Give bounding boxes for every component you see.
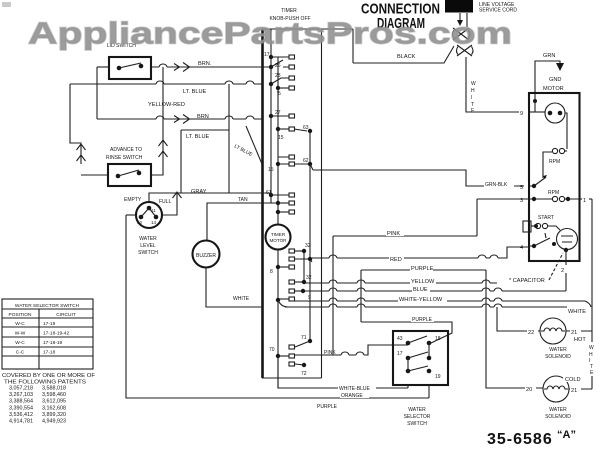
timer motor M	[266, 225, 291, 250]
svg-text:15: 15	[278, 135, 284, 141]
service cord label	[479, 2, 517, 14]
wire GRN-BLK from timer 62 to motor 5	[313, 170, 524, 186]
svg-text:ORANGE: ORANGE	[341, 393, 363, 399]
svg-text:3,598,460: 3,598,460	[42, 392, 66, 398]
wire ORANGE	[126, 215, 429, 398]
svg-text:WHITE: WHITE	[568, 309, 586, 315]
wire purple riser	[360, 270, 362, 322]
wire buzzer to white	[206, 268, 262, 308]
wire LT BLUE 2	[181, 130, 229, 193]
svg-text:W-C: W-C	[15, 321, 25, 327]
svg-text:TIMER: TIMER	[281, 8, 297, 14]
label YELLOW	[410, 277, 436, 285]
wire LT BLUE diagonal	[246, 126, 262, 164]
motor main winding circle	[529, 93, 567, 149]
capacitor wire to terminal 2	[565, 250, 567, 291]
timer bus A	[270, 29, 272, 203]
svg-text:W: W	[589, 345, 594, 351]
svg-text:WHITE-YELLOW: WHITE-YELLOW	[399, 297, 443, 303]
svg-text:70: 70	[269, 347, 275, 353]
connector chevrons BRN1	[174, 63, 190, 72]
label CAPACITOR with leader	[509, 253, 563, 284]
wire BLUE	[303, 290, 566, 292]
svg-text:WATER: WATER	[549, 407, 567, 413]
wire WHITE-BLUE	[278, 356, 408, 388]
svg-text:72: 72	[301, 371, 307, 377]
svg-text:MOTOR: MOTOR	[543, 86, 564, 92]
buzzer B1	[193, 241, 220, 268]
svg-text:SELECTOR: SELECTOR	[404, 414, 431, 420]
svg-text:LT BLUE: LT BLUE	[233, 143, 254, 158]
label PURPLE top	[410, 264, 434, 272]
svg-text:3,057,218: 3,057,218	[9, 386, 33, 392]
water level switch S4	[136, 202, 162, 228]
svg-text:LT. BLUE: LT. BLUE	[183, 89, 206, 95]
svg-text:SWITCH: SWITCH	[407, 421, 427, 427]
svg-text:17: 17	[397, 351, 403, 357]
svg-text:43: 43	[397, 336, 403, 342]
svg-text:LT. BLUE: LT. BLUE	[186, 134, 209, 140]
plug connector P1	[453, 13, 474, 56]
svg-text:17-19: 17-19	[43, 321, 56, 327]
svg-text:GRN: GRN	[543, 53, 555, 59]
svg-text:PINK: PINK	[387, 231, 400, 237]
part number 35-6586 A	[487, 429, 576, 448]
svg-text:17: 17	[264, 52, 270, 58]
svg-text:3,267,103: 3,267,103	[9, 392, 33, 398]
svg-text:SWITCH: SWITCH	[138, 250, 158, 256]
svg-text:62: 62	[303, 158, 309, 164]
svg-text:21: 21	[571, 388, 577, 394]
svg-text:RED: RED	[390, 257, 402, 263]
wire WHITE-YELLOW	[290, 301, 591, 307]
svg-text:12: 12	[137, 220, 143, 225]
svg-text:1: 1	[583, 198, 586, 204]
svg-text:17-18: 17-18	[43, 350, 56, 356]
svg-text:BRN: BRN	[197, 114, 209, 120]
selector node 19	[406, 358, 441, 380]
chevrons rinse riser	[159, 140, 168, 157]
title	[361, 1, 440, 33]
timer contact 28	[269, 73, 295, 86]
svg-text:GND: GND	[549, 77, 561, 83]
terminal 1 label	[580, 195, 592, 204]
label 21 cold	[570, 385, 581, 394]
label 22	[527, 327, 538, 336]
svg-text:4,949,923: 4,949,923	[42, 419, 66, 425]
label ORANGE	[340, 391, 369, 399]
svg-text:ADVANCE TO: ADVANCE TO	[110, 147, 142, 153]
label BLUE	[412, 285, 430, 293]
svg-text:3,390,554: 3,390,554	[9, 405, 33, 411]
wire hot solenoid 22 feed	[497, 307, 540, 331]
wire GRAY	[149, 193, 271, 203]
advance to rinse switch S2	[106, 147, 151, 186]
selector node 43	[397, 336, 427, 345]
svg-text:28: 28	[275, 73, 281, 79]
svg-text:26: 26	[275, 63, 281, 69]
svg-text:15: 15	[268, 167, 274, 173]
timer contact 9	[289, 289, 311, 301]
label TIMER KNOB-PUSH OFF	[269, 8, 310, 22]
wire LT BLUE 1	[70, 83, 262, 85]
svg-text:RPM: RPM	[548, 190, 559, 196]
svg-text:LEVEL: LEVEL	[140, 243, 156, 249]
label WATER SOLENOID hot	[545, 347, 571, 360]
wire YELLOW	[304, 282, 497, 284]
svg-text:RPM: RPM	[549, 159, 560, 165]
label WHITE-BLUE	[338, 384, 376, 392]
svg-text:2: 2	[561, 268, 564, 274]
wire lid switch right BRN	[151, 66, 262, 68]
svg-text:CIRCUIT: CIRCUIT	[56, 312, 76, 318]
svg-text:YELLOW: YELLOW	[411, 279, 435, 285]
svg-text:8: 8	[270, 269, 273, 275]
svg-text:START: START	[538, 215, 554, 221]
timer tie 32a-32b	[303, 251, 305, 282]
svg-text:COLD: COLD	[565, 377, 581, 383]
timer contact 72	[289, 362, 307, 377]
wire PURPLE top	[361, 269, 486, 271]
svg-text:H: H	[471, 88, 475, 94]
svg-text:HOT: HOT	[574, 337, 586, 343]
wire TAN	[207, 203, 278, 241]
label WATER SELECTOR SWITCH	[404, 407, 431, 427]
wire WHITE bus	[285, 306, 567, 308]
svg-text:I: I	[471, 95, 472, 101]
wire motor 1 white drop	[591, 199, 593, 389]
svg-text:TIMER: TIMER	[271, 232, 286, 237]
svg-text:GRN-BLK: GRN-BLK	[485, 182, 508, 188]
svg-text:COVERED BY ONE OR MORE OF: COVERED BY ONE OR MORE OF	[2, 373, 96, 379]
wire lid switch left	[97, 66, 109, 68]
svg-text:PURPLE: PURPLE	[412, 317, 433, 323]
svg-text:3,588,018: 3,588,018	[42, 386, 66, 392]
chevrons left riser	[77, 144, 86, 161]
svg-text:PURPLE: PURPLE	[317, 404, 338, 410]
svg-text:FULL: FULL	[159, 199, 171, 205]
svg-text:71: 71	[301, 335, 307, 341]
label PURPLE lower	[411, 315, 434, 323]
ground wire GRN	[535, 61, 560, 93]
svg-text:3,388,564: 3,388,564	[9, 399, 33, 405]
svg-text:9: 9	[520, 111, 523, 117]
svg-text:C-C: C-C	[16, 350, 25, 356]
selector node 17	[397, 351, 431, 360]
svg-text:RINSE SWITCH: RINSE SWITCH	[106, 155, 143, 161]
svg-text:MOTOR: MOTOR	[269, 238, 287, 243]
wire cold 21	[569, 388, 592, 390]
svg-text:TAN: TAN	[238, 197, 248, 203]
hot solenoid L1	[540, 318, 566, 344]
START winding	[523, 215, 560, 232]
label PINK	[386, 229, 404, 237]
label 20	[525, 384, 536, 393]
timer contact 5	[276, 86, 295, 97]
svg-text:18: 18	[435, 336, 441, 342]
svg-text:W-W: W-W	[15, 331, 26, 337]
svg-text:32: 32	[306, 275, 312, 281]
svg-text:19: 19	[435, 374, 441, 380]
svg-text:WATER: WATER	[139, 236, 157, 242]
label WHITE vertical	[471, 81, 476, 114]
timer box	[262, 29, 353, 378]
svg-text:WATER: WATER	[549, 347, 567, 353]
wire water level left	[126, 214, 136, 216]
svg-text:SERVICE CORD: SERVICE CORD	[479, 8, 517, 14]
RPM winding 2	[529, 190, 580, 202]
timer white exit	[276, 297, 295, 307]
label 21 hot	[570, 327, 581, 336]
timer contact row 259	[289, 257, 312, 262]
wire WHITE from plug to motor terminal 9	[466, 57, 528, 112]
wire left drop to rinse switch	[70, 84, 81, 164]
wire RED to motor 4	[312, 247, 529, 258]
motor box U1	[529, 93, 580, 261]
svg-text:GRAY: GRAY	[191, 189, 207, 195]
terminal 5 label	[519, 182, 528, 191]
timer contact 70	[269, 347, 295, 358]
wire pink bottom to selector 43	[294, 345, 408, 355]
timer contact 8	[270, 265, 295, 275]
svg-text:35-6586: 35-6586	[487, 431, 553, 448]
water selector switch box S3	[393, 331, 448, 385]
timer contact tan	[276, 201, 295, 214]
capacitor C1	[557, 229, 578, 253]
wire BLACK	[353, 29, 454, 63]
timer contact 26	[262, 60, 295, 69]
svg-text:'5: '5	[277, 91, 281, 97]
hop bumps on RED	[329, 255, 498, 258]
svg-text:17-18-19: 17-18-19	[43, 340, 63, 346]
wire hot 21	[566, 330, 592, 332]
wire crossing riser 229	[228, 84, 230, 193]
RPM winding 1	[543, 148, 567, 178]
wire purple lower to selector	[361, 322, 452, 343]
svg-text:E: E	[471, 108, 475, 114]
svg-text:4,914,781: 4,914,781	[9, 419, 33, 425]
label WHITE vertical right	[588, 342, 596, 376]
svg-text:63: 63	[303, 125, 309, 131]
terminal 4 contact	[529, 233, 556, 248]
label WATER SOLENOID cold	[545, 407, 571, 420]
terminal 5 contact	[529, 175, 547, 188]
wire water level right to gray	[162, 193, 177, 215]
label COLD	[563, 374, 588, 383]
timer contact 61	[266, 190, 295, 197]
line voltage service cord block	[445, 0, 473, 13]
connector chevrons BRN2	[174, 115, 190, 124]
timer bus B	[277, 57, 279, 388]
lid switch S1	[107, 43, 151, 79]
wire BRN 2	[97, 67, 262, 119]
svg-text:3,899,320: 3,899,320	[42, 412, 66, 418]
timer vertical 63-62-71	[309, 131, 311, 341]
svg-text:SOLENOID: SOLENOID	[545, 414, 571, 420]
svg-text:PURPLE: PURPLE	[411, 266, 434, 272]
patents text	[2, 373, 96, 425]
terminal 4 label	[519, 242, 528, 251]
svg-text:BRN.: BRN.	[198, 61, 212, 67]
arrow gray	[173, 192, 182, 198]
timer contact 71	[289, 335, 312, 349]
arrow from cord block	[457, 13, 463, 26]
svg-text:9: 9	[308, 295, 311, 301]
svg-text:WATER SELECTOR SWITCH: WATER SELECTOR SWITCH	[15, 303, 80, 309]
selector bottom tabs	[408, 385, 429, 398]
timer contact 17	[264, 52, 295, 59]
svg-text:W-C: W-C	[15, 340, 25, 346]
wire pink riser	[332, 236, 334, 355]
timer contact 27	[269, 110, 295, 118]
scan artifact corner	[2, 2, 11, 7]
svg-text:POSITION: POSITION	[9, 312, 32, 318]
svg-text:14: 14	[151, 220, 157, 225]
timer contact 32a	[289, 243, 311, 253]
selector node 18	[427, 336, 441, 358]
svg-text:BLUE: BLUE	[413, 287, 428, 293]
svg-text:* CAPACITOR: * CAPACITOR	[509, 278, 545, 284]
timer contact 15a	[276, 127, 295, 141]
svg-text:20: 20	[526, 387, 532, 393]
svg-text:SOLENOID: SOLENOID	[545, 354, 571, 360]
wire PINK top	[333, 235, 477, 237]
svg-text:11: 11	[151, 208, 156, 213]
svg-text:27: 27	[275, 110, 281, 116]
svg-text:YELLOW-RED: YELLOW-RED	[148, 102, 185, 108]
wire rinse left	[81, 174, 108, 176]
wire cold solenoid 20 feed PURPLE drop	[486, 270, 543, 388]
water selector table	[2, 299, 93, 369]
svg-text:WHITE: WHITE	[233, 296, 250, 302]
svg-text:WATER: WATER	[408, 407, 426, 413]
svg-text:PINK: PINK	[324, 350, 336, 356]
svg-text:AppliancePartsPros.com: AppliancePartsPros.com	[28, 16, 512, 51]
svg-text:3,612,095: 3,612,095	[42, 399, 66, 405]
svg-text:W: W	[471, 81, 476, 87]
svg-text:3,536,412: 3,536,412	[9, 412, 33, 418]
svg-text:22: 22	[528, 330, 534, 336]
node 62	[294, 158, 313, 170]
wire rinse right riser	[151, 67, 163, 175]
wire motor 3 to pink	[477, 199, 529, 236]
svg-text:21: 21	[571, 330, 577, 336]
svg-text:“A”: “A”	[557, 429, 576, 441]
timer contact 15b	[268, 155, 295, 173]
svg-text:BUZZER: BUZZER	[196, 253, 216, 259]
ground arrow	[556, 63, 564, 71]
svg-text:EMPTY: EMPTY	[124, 197, 142, 203]
label WHITE-YELLOW	[398, 295, 447, 303]
label PINK bottom	[323, 348, 340, 356]
svg-text:3,162,608: 3,162,608	[42, 405, 66, 411]
svg-text:32: 32	[305, 243, 311, 249]
svg-text:BLACK: BLACK	[397, 54, 416, 60]
terminal 3 label	[519, 195, 528, 204]
terminal 2 label	[559, 265, 567, 274]
label GRN-BLK	[484, 180, 514, 188]
svg-text:4: 4	[520, 245, 523, 251]
svg-text:17-18-19-42: 17-18-19-42	[43, 331, 69, 337]
node 63	[294, 125, 312, 133]
label WATER LEVEL SWITCH	[138, 236, 158, 256]
terminal 9	[519, 108, 528, 117]
cold solenoid L2	[543, 376, 569, 402]
timer contact 32b	[289, 275, 312, 284]
label RED	[389, 255, 404, 263]
